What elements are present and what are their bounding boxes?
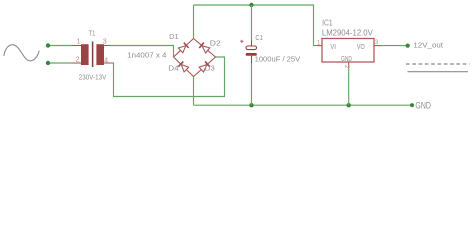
VI pin lead xyxy=(318,45,323,47)
node: junction dot IC GND xyxy=(347,103,351,107)
diode D3 xyxy=(191,54,218,79)
svg-text:1: 1 xyxy=(77,38,81,45)
VO pin lead xyxy=(374,45,382,47)
svg-text:D1: D1 xyxy=(169,32,179,41)
wire: bottom GND rail xyxy=(194,104,412,106)
pin 3 lead xyxy=(104,45,111,47)
diode D2 xyxy=(191,36,218,60)
wire: pin 4 under bridge to right corner xyxy=(111,57,225,97)
node: 12V_out endpoint dot xyxy=(406,44,410,48)
voltage regulator IC1 xyxy=(317,19,382,69)
node: AC line 1 endpoint dot xyxy=(46,43,50,47)
pin 2 lead xyxy=(72,62,82,64)
svg-text:1000uF / 25V: 1000uF / 25V xyxy=(255,55,301,64)
svg-text:VO: VO xyxy=(357,42,365,51)
svg-text:230V-13V: 230V-13V xyxy=(79,73,107,82)
wire: C1 top lead green xyxy=(251,5,253,41)
secondary winding xyxy=(96,44,104,65)
core line 1 xyxy=(92,42,94,68)
capacitor C1 xyxy=(240,33,300,64)
plus sign xyxy=(240,40,243,43)
solid annotation line xyxy=(408,71,469,73)
svg-text:12V_out: 12V_out xyxy=(413,40,444,49)
wire: IC GND to bottom rail xyxy=(348,69,350,106)
svg-text:D3: D3 xyxy=(205,64,215,73)
svg-text:T1: T1 xyxy=(89,29,96,38)
svg-text:VI: VI xyxy=(330,42,336,51)
diode D4 xyxy=(171,54,196,79)
primary winding xyxy=(81,44,89,65)
svg-text:GND: GND xyxy=(341,54,352,63)
svg-text:4: 4 xyxy=(104,57,108,64)
bottom pin lead xyxy=(251,56,253,63)
wire: AC line 2 to transformer pin 2 xyxy=(48,62,72,64)
pin 1 lead xyxy=(72,45,82,47)
wire: top rail xyxy=(194,5,318,46)
wire: pin 3 to bridge left corner xyxy=(111,46,174,58)
body xyxy=(322,39,374,63)
svg-text:3: 3 xyxy=(103,38,107,45)
wire: bridge top corner to top rail xyxy=(193,5,195,39)
svg-text:D4: D4 xyxy=(168,64,178,73)
node: junction dot C1 bottom xyxy=(249,103,253,107)
node: junction dot top rail / C1 xyxy=(249,3,253,7)
bottom plate (solid) xyxy=(246,53,257,56)
svg-text:GND: GND xyxy=(415,101,431,112)
top plate (hollow) xyxy=(246,46,257,50)
wire: C1 bottom lead green xyxy=(251,63,253,105)
svg-text:C1: C1 xyxy=(255,33,263,42)
node: AC line 2 endpoint dot xyxy=(46,61,50,65)
top pin lead xyxy=(251,41,253,47)
wire: VO to 12V_out xyxy=(382,45,408,47)
svg-text:1n4007 x 4: 1n4007 x 4 xyxy=(127,50,166,59)
AC source sine symbol xyxy=(4,45,39,61)
GND pin lead xyxy=(348,62,350,69)
wire: AC line 1 to transformer pin 1 xyxy=(48,45,72,47)
pin 4 lead xyxy=(104,62,111,64)
svg-text:LM2904-12.0V: LM2904-12.0V xyxy=(322,28,374,37)
node: GND endpoint dot xyxy=(410,103,414,107)
svg-text:D2: D2 xyxy=(210,38,221,47)
svg-text:2: 2 xyxy=(76,57,80,64)
dashed annotation line xyxy=(406,63,470,65)
transformer T1 xyxy=(72,29,111,82)
svg-text:IC1: IC1 xyxy=(322,19,333,28)
wire: bridge bottom corner down xyxy=(193,77,195,106)
diode D1 xyxy=(171,36,196,60)
